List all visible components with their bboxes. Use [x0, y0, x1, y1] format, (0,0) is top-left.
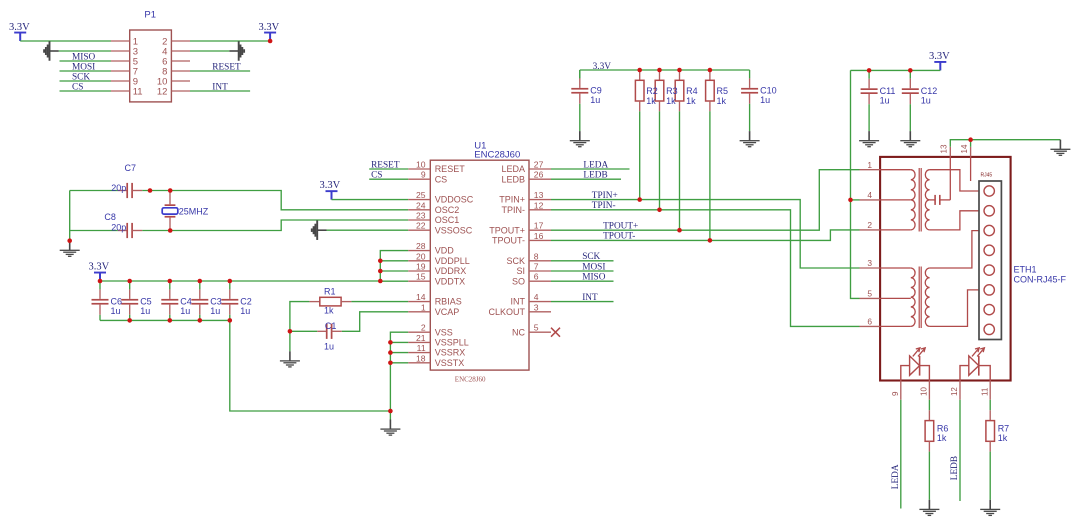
connector ETH1 name: [1014, 264, 1037, 274]
svg-text:R5: R5: [717, 86, 729, 96]
junction gnd bus at C3: [198, 318, 203, 323]
capacitor C9 value 1u: [590, 95, 600, 105]
svg-text:C1: C1: [325, 321, 337, 331]
wire R7 to gnd: [989, 452, 991, 500]
IC U1 right pin stubs: [529, 169, 551, 332]
wire pin11 to R7: [989, 400, 991, 411]
svg-text:2: 2: [867, 220, 872, 230]
junction VCAP gnd node: [288, 329, 293, 334]
svg-text:ENC28J60: ENC28J60: [474, 150, 520, 161]
wire 3.3V C11 C12 bus: [851, 69, 941, 71]
svg-text:VDDPLL: VDDPLL: [435, 256, 470, 266]
svg-text:3.3V: 3.3V: [89, 262, 110, 273]
svg-text:TPIN-: TPIN-: [502, 205, 526, 215]
wire T1 pin4 center tap: [880, 199, 911, 201]
wire R1 left down: [290, 302, 310, 332]
IC U1 left pin stubs: [408, 169, 430, 363]
wire C5 bottom: [129, 315, 131, 321]
label LEDB rotated: [950, 456, 960, 480]
wire net INT at U1: [551, 301, 614, 303]
junction VSSPLL: [388, 340, 393, 345]
svg-text:23: 23: [416, 211, 426, 221]
label TPOUT-: [603, 232, 635, 242]
resistor R6 name R6: [937, 423, 949, 433]
junction VSSRX: [388, 350, 393, 355]
svg-text:12: 12: [950, 387, 959, 396]
capacitor C1 value: [324, 342, 334, 352]
ground below R6: [919, 500, 939, 516]
wire VDD vertical: [380, 251, 408, 281]
svg-text:1k: 1k: [998, 433, 1008, 443]
junction OSC2 a: [148, 188, 153, 193]
ground below C10: [740, 131, 760, 147]
svg-text:INT: INT: [511, 297, 526, 307]
junction OSC1: [168, 228, 173, 233]
wire gnd rail stub: [389, 411, 391, 420]
svg-text:1u: 1u: [240, 306, 250, 316]
IC U1 left pin names and numbers: [416, 160, 474, 368]
svg-text:3.3V: 3.3V: [929, 51, 950, 62]
capacitor C3 name C3: [210, 297, 222, 307]
wire R2 to net: [639, 111, 641, 199]
wire P1 pin4 gnd: [190, 50, 229, 52]
IC U1 right pin names and numbers: [488, 160, 543, 338]
wire net MISO at P1: [60, 60, 112, 62]
svg-text:13: 13: [534, 190, 544, 200]
wire VDDTX: [380, 280, 408, 282]
svg-text:VDDRX: VDDRX: [435, 266, 467, 276]
svg-text:5: 5: [534, 323, 539, 333]
capacitor C3: [191, 281, 208, 315]
supply 3.3V at P1 pin 1 label 3.3V: [9, 22, 30, 33]
wire net LEDB: [551, 178, 621, 180]
label LEDA rotated: [891, 464, 901, 489]
wire P1 pin2 3.3V: [190, 40, 270, 42]
svg-text:RESET: RESET: [212, 62, 241, 72]
svg-text:NC: NC: [512, 327, 525, 337]
junction gnd bus at C4: [168, 318, 173, 323]
svg-text:LEDA: LEDA: [501, 164, 525, 174]
svg-text:16: 16: [534, 231, 544, 241]
capacitor C12 name C12: [921, 86, 938, 96]
wire 3.3V bus to VDD: [100, 280, 380, 282]
wire VDDOSC: [332, 199, 409, 201]
wire C1 to VCAP: [342, 312, 409, 332]
resistor R4: [675, 70, 684, 111]
wire T2 pin6 rail: [880, 325, 911, 327]
label TPOUT+: [603, 222, 638, 232]
wire T1 pin1 rail: [880, 169, 911, 171]
svg-text:VCAP: VCAP: [435, 307, 460, 317]
capacitor C8 value: [111, 222, 126, 232]
RJ45 jack label: [981, 172, 993, 178]
capacitor C4 value 1u: [180, 306, 190, 316]
svg-text:3.3V: 3.3V: [259, 22, 280, 33]
label RESET at U1: [371, 160, 400, 170]
junction TPOUT+ R4: [677, 228, 682, 233]
svg-text:R2: R2: [646, 86, 658, 96]
svg-text:MISO: MISO: [72, 52, 96, 62]
svg-text:R7: R7: [998, 423, 1010, 433]
wire net TPOUT+: [551, 170, 860, 231]
wire VDDRX: [380, 270, 408, 272]
resistor R7: [986, 410, 995, 451]
svg-text:LEDB: LEDB: [950, 456, 960, 480]
IC U1 part label small: [455, 376, 486, 384]
wire C4 bottom: [169, 315, 171, 321]
junction bias bus R4: [677, 68, 682, 73]
svg-text:3.3V: 3.3V: [320, 180, 341, 191]
capacitor C8: [118, 223, 143, 238]
wire net SCK at U1: [551, 260, 614, 262]
label CS at P1: [72, 82, 83, 92]
junction TPOUT- R5: [708, 238, 713, 243]
resistor R1 name: [324, 287, 336, 297]
label MISO at P1: [72, 52, 96, 62]
supply 3.3V at P1 pin 1: [14, 32, 26, 41]
svg-text:VDDOSC: VDDOSC: [435, 195, 474, 205]
svg-text:11: 11: [417, 343, 426, 353]
wire net CS at P1: [60, 90, 112, 92]
junction OSC2 b: [168, 188, 173, 193]
svg-text:TPOUT-: TPOUT-: [603, 232, 635, 242]
svg-text:1u: 1u: [590, 95, 600, 105]
capacitor C8 name: [104, 212, 116, 222]
LED B inside ETH1: [960, 348, 990, 381]
wire VSS vertical: [390, 332, 408, 411]
svg-text:SCK: SCK: [72, 72, 90, 82]
junction gnd bus at C5: [127, 318, 132, 323]
wire VSSPLL: [390, 341, 408, 343]
capacitor C11 name C11: [880, 86, 896, 96]
resistor R2 value 1k: [646, 96, 656, 106]
svg-text:3: 3: [534, 302, 539, 312]
svg-text:R6: R6: [937, 423, 949, 433]
junction VDDPLL: [378, 259, 383, 264]
label LEDA: [583, 160, 608, 170]
svg-text:RJ45: RJ45: [981, 172, 993, 178]
svg-text:R3: R3: [666, 86, 678, 96]
ground below C9: [570, 131, 590, 147]
svg-text:19: 19: [416, 262, 426, 272]
junction ETH pin14 gnd: [968, 137, 973, 142]
svg-text:2: 2: [421, 323, 426, 333]
resistor R3: [655, 70, 664, 111]
connector ETH1 bottom pin stubs: [901, 381, 990, 400]
capacitor C9: [571, 70, 588, 104]
capacitor C12: [902, 70, 919, 104]
svg-text:8: 8: [534, 251, 539, 261]
resistor R5 value 1k: [717, 96, 727, 106]
svg-text:5: 5: [867, 289, 872, 299]
transformer T1 primary coil: [911, 170, 915, 230]
junction bias bus R5: [708, 68, 713, 73]
wire T1 secondary bottom to jack c2: [930, 211, 984, 230]
wire 3.3V to ETH pins 4 5: [851, 70, 860, 298]
wire VSSOSC: [327, 229, 409, 231]
wire pin 14 to shield: [970, 157, 972, 181]
capacitor C10: [741, 70, 758, 104]
capacitor C7: [118, 183, 143, 198]
connector P1 pin stubs: [111, 41, 190, 91]
capacitor C11: [861, 70, 878, 104]
wire P1 pin1 3.3V: [20, 40, 111, 42]
resistor R2: [635, 70, 644, 111]
svg-text:MOSI: MOSI: [582, 262, 605, 272]
wire VDDPLL: [380, 260, 408, 262]
svg-text:14: 14: [960, 144, 969, 153]
wire T2 secondary bottom to jack c6: [930, 290, 984, 327]
supply 3.3V at VDDOSC label 3.3V: [320, 180, 341, 191]
wire net RESET at P1: [190, 70, 250, 72]
svg-text:CS: CS: [435, 174, 448, 184]
connector ETH1 pin 13 number: [940, 144, 949, 153]
wire cap to pin 13: [949, 157, 951, 200]
svg-text:VSSOSC: VSSOSC: [435, 225, 473, 235]
transformer T2 core: [919, 267, 921, 329]
svg-text:1u: 1u: [140, 306, 150, 316]
label TPIN+: [592, 191, 618, 201]
junction C11: [867, 68, 872, 73]
wire crystal vertical left: [69, 191, 71, 241]
svg-text:1k: 1k: [324, 306, 334, 316]
wire gnd stub under R1: [289, 331, 291, 351]
capacitor C5: [121, 281, 138, 315]
capacitor C7 value: [111, 183, 126, 193]
supply 3.3V at P1 pin 2: [264, 32, 276, 41]
svg-text:TPOUT+: TPOUT+: [603, 222, 638, 232]
svg-text:TPIN-: TPIN-: [592, 201, 616, 211]
wire R5 to net: [709, 111, 711, 240]
svg-text:VSSPLL: VSSPLL: [435, 338, 469, 348]
svg-text:TPIN+: TPIN+: [499, 195, 525, 205]
svg-text:1k: 1k: [686, 96, 696, 106]
svg-text:C7: C7: [125, 163, 137, 173]
svg-text:1: 1: [867, 160, 872, 170]
resistor R5: [706, 70, 715, 111]
connector ETH1 pin 14 number: [960, 144, 969, 153]
svg-text:22: 22: [416, 221, 426, 231]
svg-text:VDD: VDD: [435, 246, 455, 256]
crystal 25MHZ: [162, 191, 178, 231]
svg-text:24: 24: [416, 200, 426, 210]
svg-text:6: 6: [867, 317, 872, 327]
resistor R3 name R3: [666, 86, 678, 96]
capacitor C2: [221, 281, 238, 315]
IC U1 NC pin X mark: [551, 328, 560, 337]
label LEDB: [583, 171, 607, 181]
wire C11 bottom: [868, 104, 870, 131]
svg-text:LEDA: LEDA: [891, 464, 901, 489]
svg-text:LEDA: LEDA: [583, 160, 608, 170]
wire net LEDA: [551, 168, 630, 170]
svg-text:ENC28J60: ENC28J60: [455, 376, 486, 384]
label RESET at P1: [212, 62, 241, 72]
connector ETH1 left pin stubs: [860, 170, 881, 327]
transformer T2 secondary coil: [925, 268, 929, 326]
junction 3.3V bus at C6: [98, 279, 103, 284]
svg-text:10: 10: [416, 160, 426, 170]
svg-text:9: 9: [891, 391, 900, 396]
connector ETH1 pin 13 stub: [949, 147, 951, 157]
resistor R3 value 1k: [666, 96, 676, 106]
svg-text:1u: 1u: [111, 306, 121, 316]
svg-text:14: 14: [416, 292, 426, 302]
supply 3.3V at cap bank label 3.3V: [89, 262, 110, 273]
junction gnd bus at C2: [228, 318, 233, 323]
svg-text:CLKOUT: CLKOUT: [488, 307, 525, 317]
svg-text:11: 11: [980, 387, 989, 396]
capacitor C11 value 1u: [880, 95, 890, 105]
svg-text:26: 26: [534, 170, 544, 180]
capacitor C6 value 1u: [111, 306, 121, 316]
resistor R4 value 1k: [686, 96, 696, 106]
svg-text:1u: 1u: [880, 95, 890, 105]
connector ETH1 pin 10 number: [920, 387, 929, 396]
wire C9 top: [579, 70, 581, 78]
supply 3.3V at P1 pin 2 label 3.3V: [259, 22, 280, 33]
wire net LEDB at ETH: [959, 400, 961, 501]
ground below crystal net: [60, 241, 80, 257]
svg-text:1u: 1u: [760, 95, 770, 105]
junction TPIN- R3: [657, 208, 662, 213]
junction ETH pin4: [848, 198, 853, 203]
svg-text:25: 25: [416, 190, 426, 200]
svg-text:3.3V: 3.3V: [9, 22, 30, 33]
RJ45 jack shield rect: [979, 181, 1001, 340]
label SCK at U1: [582, 252, 600, 262]
junction 3.3V bus at C4: [168, 279, 173, 284]
svg-text:3: 3: [867, 258, 872, 268]
wire C2 bottom: [229, 315, 231, 321]
ground at P1 pin 3: [43, 41, 59, 61]
connector ETH1 pin 9 number: [891, 391, 900, 396]
svg-text:CS: CS: [72, 82, 83, 92]
wire C6 bottom: [99, 315, 101, 321]
capacitor C3 value 1u: [210, 306, 220, 316]
svg-text:15: 15: [416, 272, 426, 282]
wire net LEDA at ETH: [900, 400, 902, 509]
svg-text:1u: 1u: [210, 306, 220, 316]
svg-text:VDDTX: VDDTX: [435, 276, 466, 286]
svg-text:4: 4: [534, 292, 539, 302]
svg-text:1u: 1u: [324, 342, 334, 352]
svg-text:INT: INT: [212, 82, 228, 92]
wire OSC1 net left: [70, 230, 118, 232]
capacitor C9 name C9: [590, 86, 602, 96]
svg-text:VSSRX: VSSRX: [435, 348, 466, 358]
connector P1 title: [144, 10, 156, 21]
svg-text:9: 9: [421, 170, 426, 180]
svg-text:C8: C8: [104, 212, 116, 222]
svg-text:1k: 1k: [646, 96, 656, 106]
junction VSSTX: [388, 361, 393, 366]
junction 3.3V bus at C5: [127, 279, 132, 284]
svg-text:1k: 1k: [717, 96, 727, 106]
svg-text:LEDB: LEDB: [501, 174, 525, 184]
label SCK at P1: [72, 72, 90, 82]
svg-text:25MHZ: 25MHZ: [179, 206, 209, 216]
svg-text:1k: 1k: [937, 433, 947, 443]
ground at ETH top right: [1050, 140, 1070, 156]
connector ETH1 pin 11 number: [980, 387, 989, 396]
svg-text:7: 7: [534, 262, 539, 272]
capacitor C1 name: [325, 321, 337, 331]
svg-text:MISO: MISO: [582, 273, 606, 283]
svg-text:SO: SO: [512, 276, 525, 286]
svg-text:17: 17: [534, 221, 544, 231]
ground at P1 pin 4: [229, 41, 245, 61]
crystal value 25MHZ: [179, 206, 209, 216]
capacitor C4: [161, 281, 178, 315]
capacitor C5 name C5: [140, 297, 152, 307]
resistor R5 name R5: [717, 86, 729, 96]
junction TPIN+ R2: [637, 197, 642, 202]
capacitor C1: [317, 324, 342, 339]
wire net INT at P1: [190, 90, 250, 92]
connector ETH1 pin 14 stub: [970, 147, 972, 157]
wire OSC2 net left: [70, 190, 118, 192]
resistor R7 value 1k: [998, 433, 1008, 443]
capacitor C12 value 1u: [921, 95, 931, 105]
ground below R1 C1: [280, 351, 300, 367]
capacitor C10 value 1u: [760, 95, 770, 105]
svg-text:28: 28: [416, 241, 426, 251]
svg-text:SCK: SCK: [506, 256, 525, 266]
wire T1 secondary top to jack c1: [930, 170, 984, 191]
wire T1 pin2 rail: [880, 229, 911, 231]
wire net MOSI at P1: [60, 70, 112, 72]
svg-text:1k: 1k: [666, 96, 676, 106]
wire R1 right to RBIAS: [351, 301, 408, 303]
wire ETH pins 13 14 to gnd: [950, 140, 1060, 147]
capacitor C5 value 1u: [140, 306, 150, 316]
wire C12 bottom: [909, 104, 911, 131]
wire T1 center tap to cap: [930, 199, 936, 201]
wire net TPOUT-: [551, 230, 860, 241]
svg-text:6: 6: [534, 272, 539, 282]
svg-text:11: 11: [133, 86, 143, 97]
capacitor C6: [92, 281, 109, 315]
svg-text:21: 21: [416, 333, 426, 343]
supply 3.3V at P1 pin 2 junction: [268, 39, 273, 44]
svg-text:4: 4: [867, 190, 872, 200]
junction VDDTX: [378, 279, 383, 284]
resistor R1: [309, 297, 351, 306]
wire 3.3V bias bus: [580, 69, 750, 71]
svg-text:R4: R4: [686, 86, 698, 96]
wire C3 bottom: [199, 315, 201, 321]
svg-text:20p: 20p: [111, 222, 126, 232]
connector ETH1 pin 12 number: [950, 387, 959, 396]
connector P1 box: [130, 30, 172, 102]
IC U1 name: [474, 141, 486, 152]
wire C1 left: [290, 330, 317, 332]
wire gnd bus down right: [230, 320, 391, 411]
svg-text:VSSTX: VSSTX: [435, 358, 465, 368]
svg-text:1: 1: [421, 302, 426, 312]
supply 3.3V at C11 C12 label 3.3V: [929, 51, 950, 62]
junction bias bus R3: [657, 68, 662, 73]
wire VSSTX: [390, 362, 408, 364]
svg-text:RBIAS: RBIAS: [435, 297, 462, 307]
wire R4 to net: [679, 111, 681, 230]
svg-text:1u: 1u: [921, 95, 931, 105]
wire C10 bottom: [749, 104, 751, 131]
wire net MOSI at U1: [551, 270, 614, 272]
svg-text:3.3V: 3.3V: [593, 62, 612, 72]
wire R3 to net: [659, 111, 661, 210]
